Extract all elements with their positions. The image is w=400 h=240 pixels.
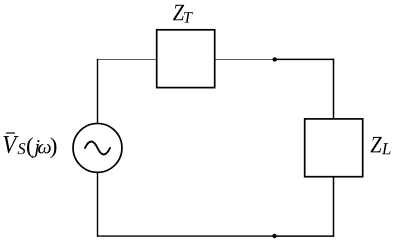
wire top-left: source top to ZT box (98, 58, 157, 60)
glyph Z of ZT label (173, 5, 184, 20)
label ZT (173, 5, 193, 23)
junction node A (top) (273, 57, 277, 61)
impedance box ZL (305, 119, 363, 177)
impedance box ZT (157, 30, 215, 88)
label ZL (371, 137, 391, 154)
wire right upper: corner to ZL (333, 59, 335, 119)
wire bottom-left: node B to left corner (98, 235, 275, 237)
label VS(jw) (3, 136, 56, 158)
glyph omega of source label (38, 144, 51, 154)
wire left upper: corner to source (97, 172, 99, 237)
wire top-right: node A to corner (275, 58, 334, 60)
wire top-mid: ZT box to node A (215, 58, 275, 60)
glyph j of source label (32, 140, 39, 158)
glyph S subscript of source label (18, 143, 26, 154)
glyph L subscript of ZL label (382, 143, 391, 154)
glyph ) of source label (51, 137, 57, 158)
wire left lower: source to top-left corner (97, 59, 99, 124)
glyph V of source label (3, 136, 18, 153)
glyph T subscript of ZT label (184, 12, 193, 22)
wire right lower: ZL to bottom corner (333, 177, 335, 237)
sine wave of source (85, 142, 110, 155)
junction node B (bottom) (272, 234, 276, 238)
bar over V (6, 132, 15, 134)
glyph ( of source label (27, 137, 33, 158)
voltage source VS (73, 123, 122, 172)
glyph Z of ZL label (371, 137, 382, 152)
wire bottom-right: corner to node B (275, 235, 335, 237)
